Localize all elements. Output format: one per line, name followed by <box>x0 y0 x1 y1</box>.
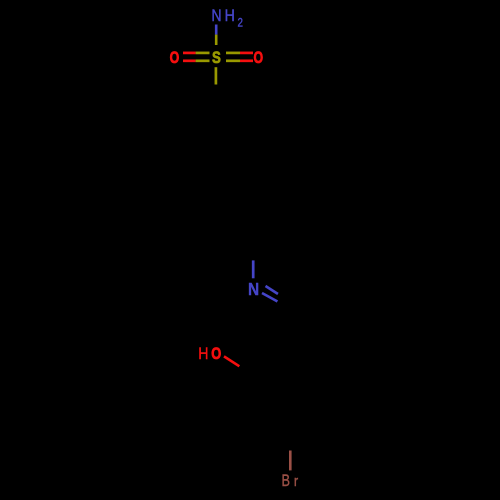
svg-text:O: O <box>253 49 263 67</box>
double bond S=O right, line 1 (sulfur half olive, oxygen half red) <box>226 52 240 55</box>
bond N-S (nitrogen half, blue) <box>215 25 218 35</box>
svg-text:N: N <box>248 280 259 299</box>
double bond S=O left, line 1 (oxygen half red, sulfur half olive) <box>183 52 196 55</box>
amide group NH2 label <box>211 7 243 30</box>
bond O-C (oxygen half, red) <box>224 356 239 366</box>
bond C4-N (carbon half, black/invisible) <box>252 244 255 261</box>
double bond S=O right, line 2 <box>226 59 240 62</box>
bond C4-N (nitrogen half, blue) <box>252 260 255 278</box>
svg-text:N: N <box>211 7 221 25</box>
bromine atom Br label <box>282 472 299 490</box>
bond O-C (carbon half, black/invisible) <box>239 366 254 376</box>
bond C-Br (bromine half, brown) <box>289 451 292 471</box>
benzene ring 2 (carbon, invisible on black) <box>245 315 347 431</box>
svg-text:O: O <box>170 49 180 67</box>
svg-text:S: S <box>212 48 221 67</box>
svg-text:B: B <box>282 473 290 491</box>
double bond S=O left, line 2 <box>183 59 196 62</box>
bond S-C1 (sulfur half, olive) <box>215 67 218 84</box>
double bond N=C line 2 <box>262 293 278 302</box>
svg-text:H: H <box>198 345 208 363</box>
bond C-Br (carbon half, black/invisible) <box>289 430 292 451</box>
svg-text:H: H <box>225 7 235 25</box>
svg-text:r: r <box>294 472 299 489</box>
double bond N=C line 1 (nitrogen half blue, then carbon black) <box>266 286 279 294</box>
svg-text:O: O <box>211 346 221 364</box>
svg-text:2: 2 <box>238 17 243 30</box>
bond S-C1 (carbon half, black/invisible) <box>215 85 218 102</box>
bond N-S (sulfur half, olive) <box>215 35 218 45</box>
benzene ring 1 (carbon, invisible on black) <box>189 101 281 244</box>
